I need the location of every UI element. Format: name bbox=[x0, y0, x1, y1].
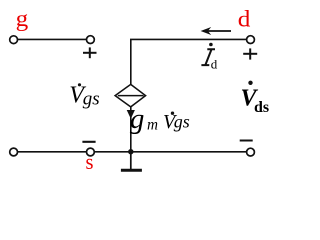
dependent current source gmVgs (diamond) bbox=[115, 84, 146, 107]
label Vgs (voltage) bbox=[69, 82, 99, 109]
wire source rail bbox=[14, 151, 247, 153]
svg-text:d: d bbox=[211, 57, 218, 72]
terminal bottom-right bbox=[247, 148, 255, 156]
terminal gate + bbox=[87, 36, 95, 44]
plus sign (gate side) bbox=[83, 47, 97, 58]
svg-text:gs: gs bbox=[174, 112, 190, 132]
junction bbox=[128, 149, 133, 154]
node s label bbox=[86, 149, 94, 174]
wire source bottom with arrowhead bbox=[127, 107, 135, 152]
label Vds (voltage) bbox=[241, 81, 270, 117]
svg-text:d: d bbox=[238, 7, 251, 32]
svg-text:m: m bbox=[147, 117, 158, 134]
minus sign (source side) bbox=[82, 141, 95, 143]
svg-text:ds: ds bbox=[254, 99, 269, 116]
svg-text:g: g bbox=[16, 6, 29, 31]
ground bbox=[121, 152, 142, 171]
node g label bbox=[16, 6, 29, 31]
node d label bbox=[238, 7, 251, 32]
wire drain top and vertical to source node bbox=[131, 39, 246, 84]
current arrow Id bbox=[201, 27, 231, 35]
plus sign (drain side) bbox=[243, 48, 257, 59]
svg-text:gs: gs bbox=[83, 88, 100, 109]
wire gate (g to +) bbox=[14, 38, 90, 40]
label Id (current) bbox=[201, 43, 217, 72]
value label gmVgs bbox=[130, 103, 190, 135]
minus sign (drain bottom side) bbox=[240, 140, 253, 142]
terminal d bbox=[247, 36, 255, 44]
terminal bottom-left bbox=[10, 148, 18, 156]
terminal g bbox=[10, 36, 18, 44]
svg-text:s: s bbox=[86, 149, 94, 174]
terminal s bbox=[87, 148, 95, 156]
svg-text:g: g bbox=[130, 103, 145, 135]
